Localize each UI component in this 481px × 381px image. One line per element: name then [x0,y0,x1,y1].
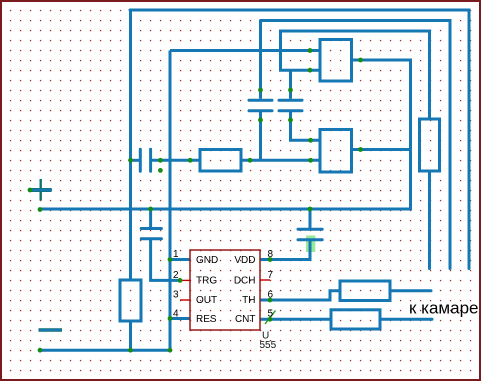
junction [168,257,173,262]
svg-text:CNT: CNT [235,314,256,325]
junction [308,158,313,163]
resistor R2 (vertical right) [420,119,440,171]
wire C2 bottom lead [259,112,262,160]
wire Q1 right pin to +rail [40,60,411,209]
junction [178,278,183,283]
resistor R1 [200,150,241,172]
junction [258,118,263,123]
junction [308,138,313,143]
svg-text:GND: GND [196,255,218,266]
capacitor C4 (x=150.6) [141,229,161,239]
wire C5 bottom lead to pin8 [260,241,310,260]
wire C1 row y=160.3 [129,159,139,162]
wire Q2 right pin [352,148,413,151]
wire pin4 RES [170,317,190,320]
transistor Q1 (box) [320,40,352,82]
svg-text:OUT: OUT [196,295,217,306]
minus terminal [39,328,63,332]
wire C4 bottom lead to pin2 [151,240,180,280]
wire R3 bottom lead [129,321,132,350]
junction [358,58,363,63]
junction [128,348,133,353]
wire pin6 TH to R4 [260,291,340,300]
wire y=50.5 to Q1 upper pin [170,49,320,52]
junction [358,147,363,152]
pin 7 stub [260,279,270,281]
resistor R5 [331,310,380,329]
junction [38,207,43,212]
wire net VCC top: y=10 rail [130,10,469,269]
wire net top2: y=20.5 rail [261,21,451,269]
wire bottom rail y=350 [40,349,170,352]
svg-text:DCH: DCH [234,276,256,287]
svg-text:RES: RES [196,314,217,325]
junction [308,68,313,73]
wire C3 top lead [289,70,292,99]
wire R5 right dangling [380,318,432,321]
svg-text:4: 4 [173,308,179,319]
svg-text:TH: TH [242,295,255,306]
junction [158,168,163,173]
junction [268,298,273,303]
pin 2 stub [180,279,190,281]
pin 3 stub [180,299,190,301]
wire C4 top lead [149,209,152,227]
wire C5 top lead [309,209,312,228]
plus terminal [29,179,52,201]
junction [148,207,153,212]
junction [168,348,173,353]
wire R4 right dangling [390,289,431,292]
wire net top3: y=31 rail to R2 [281,31,430,119]
capacitor C2 (x=260.5) [249,100,272,111]
wire C2 top lead [259,21,262,99]
wire R1 right to Q2 lower pin [241,159,320,162]
wire pin5 CNT to R5 [260,318,331,321]
wire pin1 GND [170,258,190,261]
junction [268,257,273,262]
junction [188,158,193,163]
junction [268,317,273,322]
capacitor C5 (x=310) [298,229,322,240]
junction [168,316,173,321]
svg-text:7: 7 [268,270,274,281]
junction [288,118,293,123]
capacitor C3 (x=290.5) [279,100,302,111]
svg-text:1: 1 [173,249,179,260]
junction [128,158,133,163]
capacitor C1 (series, x=140/150.5) [140,149,150,171]
junction [28,188,33,193]
wire x=170 vertical (GND net) [169,51,172,351]
junction [288,88,293,93]
wire left vertical x=130 [129,10,132,280]
resistor R3 (vertical left) [120,280,141,321]
svg-text:3: 3 [173,290,179,301]
svg-text:к камаре: к камаре [409,299,478,318]
junction [308,48,313,53]
junction [158,158,163,163]
svg-text:VDD: VDD [234,255,255,266]
junction [248,158,253,163]
junction [308,207,313,212]
svg-text:TRG: TRG [196,276,217,287]
junction [258,88,263,93]
resistor R4 [340,281,390,301]
wire R2 bottom lead [428,171,431,269]
highlight on C5 lead [306,236,315,253]
wire C3 bottom lead to Q2 [291,112,321,140]
no-connect slash pin 5 [265,311,276,325]
junction [38,348,43,353]
op-amp U1 555 body [190,250,260,330]
transistor Q2 (box) [320,130,352,173]
svg-text:555: 555 [260,340,277,351]
